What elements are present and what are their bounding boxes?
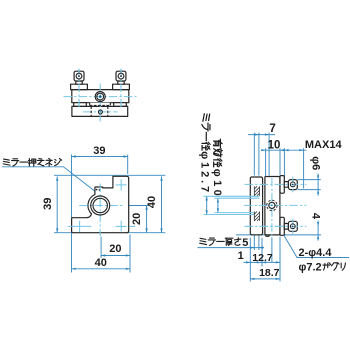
dimension 7 side view bbox=[248, 134, 275, 136]
side view top lip bbox=[266, 177, 269, 194]
top view right tab bbox=[114, 103, 127, 107]
svg-text:φ12.7: φ12.7 bbox=[199, 151, 211, 195]
svg-text:39: 39 bbox=[42, 198, 54, 210]
side view top screw head bbox=[288, 180, 297, 190]
top view left screw head bbox=[74, 71, 84, 81]
side view top screw flange bbox=[280, 176, 284, 194]
top view bottom center hole bbox=[98, 110, 102, 114]
svg-text:20: 20 bbox=[109, 243, 121, 255]
dimension 40 right bbox=[161, 177, 163, 233]
top view main bar bbox=[72, 90, 129, 103]
dimension effective dia 10 bbox=[217, 198, 219, 212]
label mirror thickness 5 bbox=[200, 238, 207, 244]
dimension 39 top bbox=[72, 156, 128, 158]
label effective dia phi10 rotated bbox=[213, 139, 222, 147]
side view body bbox=[265, 177, 280, 235]
top view bottom bar bbox=[72, 106, 128, 116]
extension lines side view bottom bbox=[249, 238, 251, 282]
side view main horizontal centerline bbox=[244, 204, 306, 206]
side view mirror hatch lower bbox=[254, 211, 259, 221]
side view top screw stem bbox=[284, 182, 288, 188]
svg-text:7: 7 bbox=[269, 123, 275, 135]
dimension 20 bottom bbox=[101, 255, 130, 257]
front view mirror bore circles bbox=[91, 196, 110, 215]
side view bottom screw stem bbox=[284, 224, 288, 230]
extension lines side view top bbox=[258, 133, 260, 176]
label mirror dia phi12.7 rotated bbox=[203, 114, 210, 122]
side view center hole bbox=[269, 202, 275, 208]
side view mirror hatch upper bbox=[254, 186, 259, 195]
front view hole cross top-right bbox=[116, 184, 127, 186]
svg-text:4: 4 bbox=[309, 213, 321, 220]
svg-text:φ10: φ10 bbox=[211, 169, 223, 199]
front view horizontal centerline bbox=[79, 205, 122, 207]
dimension phi6 side view bbox=[298, 179, 321, 181]
svg-text:40: 40 bbox=[95, 257, 107, 269]
top view hidden hole lines bbox=[90, 106, 92, 116]
top view left screw centerline bbox=[78, 69, 80, 108]
side view bottom screw head circle bbox=[290, 224, 295, 229]
top view horizontal centerline bbox=[64, 96, 137, 98]
svg-text:40: 40 bbox=[146, 196, 158, 208]
top view center vertical centerline bbox=[99, 84, 101, 122]
top view left tab bbox=[74, 103, 87, 107]
top view bottom bar centerline bbox=[83, 111, 118, 113]
dimension 39 left bbox=[56, 177, 58, 233]
top view left screw head circle bbox=[76, 73, 82, 79]
side view bottom lip bbox=[266, 218, 269, 236]
dimension extension lines front view bbox=[71, 155, 73, 273]
top view center seat hidden line bbox=[90, 104, 111, 106]
side view press plate bbox=[250, 177, 262, 235]
svg-text:1: 1 bbox=[238, 250, 244, 262]
dimension mirror dia 12.7 bbox=[206, 196, 208, 214]
side view vertical centerline bbox=[271, 178, 273, 238]
top view right screw centerline bbox=[120, 69, 122, 108]
svg-text:φ6: φ6 bbox=[309, 156, 321, 170]
svg-text:12.7: 12.7 bbox=[252, 252, 273, 264]
top view center press screw bbox=[95, 92, 105, 102]
side view top screw centerline bbox=[245, 183, 307, 185]
side view bottom screw flange bbox=[280, 217, 284, 235]
side view bottom screw head bbox=[288, 221, 297, 231]
front view hole cross bottom-left bbox=[68, 225, 92, 227]
top view right screw head circle bbox=[118, 73, 124, 79]
label mirror press screw bbox=[3, 159, 10, 165]
front view vertical centerline bbox=[99, 184, 101, 237]
front view press screw tip dots bbox=[96, 189, 98, 191]
side view screw head centerlines bbox=[292, 177, 294, 192]
side view bottom screw centerline bbox=[245, 225, 307, 227]
top view right screw flange bbox=[113, 84, 130, 89]
dimension 40 bottom bbox=[72, 268, 131, 270]
leader line 2-phi4.4 counterbore bbox=[284, 236, 349, 258]
svg-text:18.7: 18.7 bbox=[259, 267, 280, 279]
svg-text:MAX14: MAX14 bbox=[305, 139, 343, 151]
front view hole cross bottom-right bbox=[116, 225, 127, 227]
dimension 18.7 side view bbox=[250, 278, 280, 280]
top view right screw head bbox=[116, 71, 126, 81]
dimension mirror thickness 5 bbox=[198, 247, 265, 249]
svg-text:5: 5 bbox=[242, 237, 248, 249]
top view left screw flange bbox=[71, 84, 88, 89]
svg-text:10: 10 bbox=[268, 139, 281, 151]
svg-text:20: 20 bbox=[131, 213, 143, 225]
dimension 20 right bbox=[146, 206, 148, 233]
side view counterbore hidden circle bbox=[267, 200, 277, 210]
top view left screw stem bbox=[76, 81, 82, 84]
front view body outline bbox=[72, 176, 129, 232]
side view top screw head circle bbox=[290, 182, 295, 187]
dimension 1 and 12.7 side view bbox=[244, 261, 281, 263]
svg-text:2-φ4.4: 2-φ4.4 bbox=[299, 247, 333, 259]
svg-text:φ7.2: φ7.2 bbox=[299, 261, 322, 273]
top view right screw stem bbox=[118, 81, 124, 84]
svg-text:39: 39 bbox=[93, 145, 105, 157]
dimension 4 side view bbox=[236, 234, 321, 236]
leader line mirror press screw bbox=[2, 167, 96, 193]
mirror diameter extension lines bbox=[204, 195, 260, 197]
top view center seat bbox=[90, 103, 111, 106]
dimension 10 and MAX14 side view bbox=[261, 149, 307, 151]
